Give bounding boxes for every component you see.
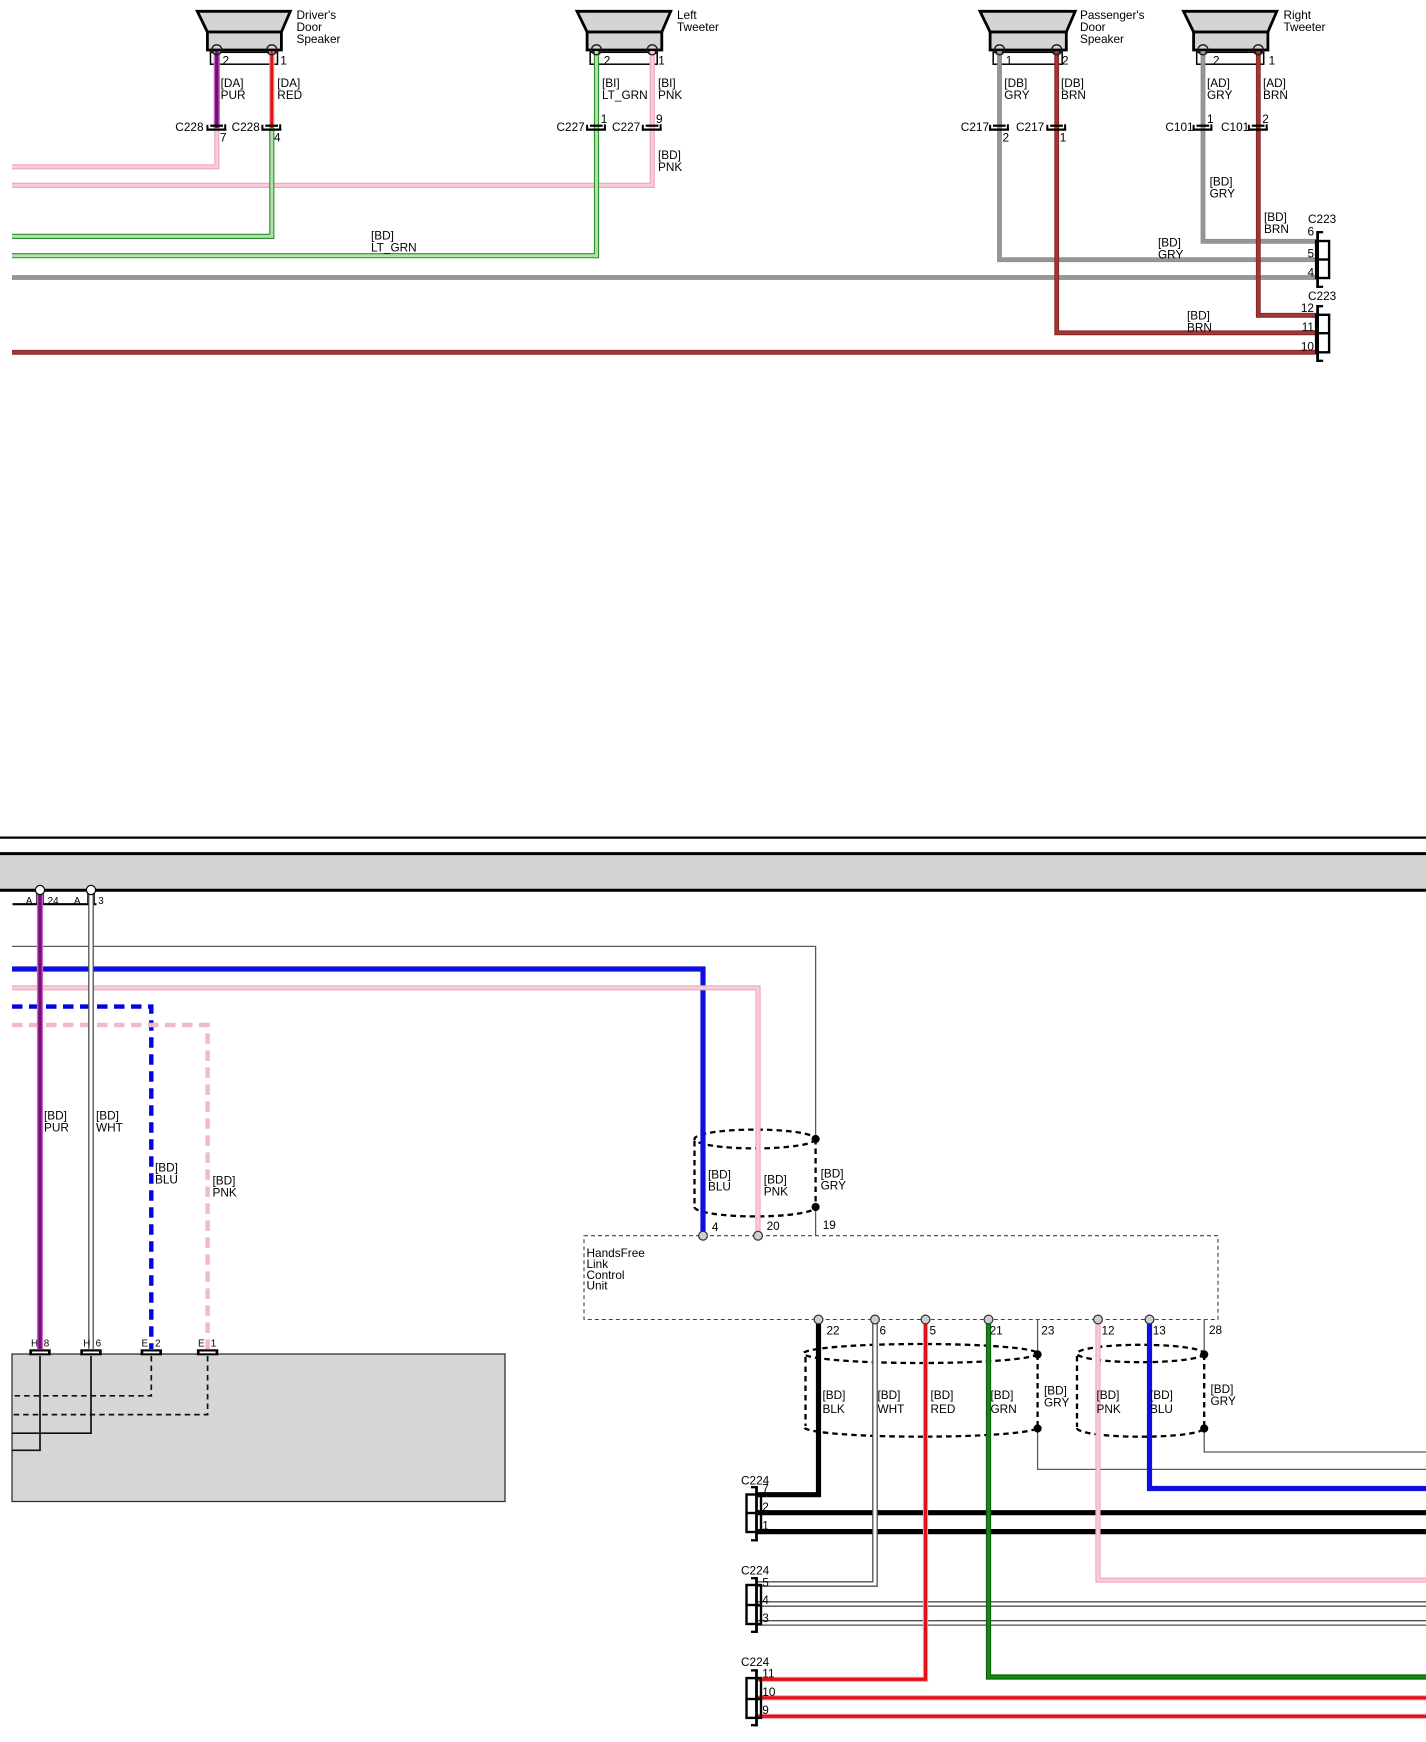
svg-text:2: 2 [223, 53, 230, 67]
svg-text:1: 1 [601, 112, 608, 126]
svg-text:C217: C217 [1016, 120, 1044, 134]
label [BD] RED [931, 1388, 956, 1416]
svg-text:20: 20 [767, 1219, 781, 1233]
wire [DA] RED speaker pin 1 to C228 pin 4 [269, 51, 274, 128]
terminal circle A 24 [35, 885, 44, 894]
shield drain pin 28 dashed segment [1203, 1355, 1205, 1429]
shield cylinder around BLK/WHT/RED/GRN [804, 1344, 1038, 1437]
svg-text:5: 5 [930, 1324, 937, 1338]
svg-text:WHT: WHT [96, 1121, 123, 1135]
svg-text:H: H [83, 1339, 90, 1350]
connector C228 pin 4 [232, 120, 282, 145]
label Passenger's Door Speaker [1080, 8, 1145, 46]
svg-text:BLU: BLU [155, 1173, 178, 1187]
svg-text:RED: RED [931, 1402, 956, 1416]
svg-text:PNK: PNK [764, 1185, 788, 1199]
wire [BD] PNK from C228 pin 7 to left edge [12, 128, 217, 167]
horizontal rule above harness bar [0, 836, 1426, 838]
wire [BD] GRY drain pin 28 to right edge [1204, 1320, 1426, 1453]
svg-text:7: 7 [762, 1482, 769, 1496]
svg-text:PUR: PUR [44, 1121, 69, 1135]
wire [BD] WHT pin 6 to C224 pin 5 [757, 1322, 875, 1584]
svg-text:BLK: BLK [823, 1402, 845, 1416]
wire [BD] RED C224 pin 10 to right edge [757, 1695, 1426, 1700]
svg-text:Speaker: Speaker [297, 32, 341, 46]
svg-text:2: 2 [762, 1500, 769, 1514]
connector C101 pin 1 [1165, 112, 1213, 134]
wire [BD] BLK C224 pin 2 to right edge [757, 1510, 1426, 1515]
label [BI] LT_GRN [602, 76, 648, 102]
connector C227 pin 9 [612, 112, 663, 134]
wire [DA] PUR speaker pin 2 to C228 pin 7 [214, 51, 220, 128]
wire [BD] LT_GRN from C228 pin 4 to left edge [12, 128, 272, 236]
connector C224 pins 11,10,9 [741, 1655, 776, 1727]
connector face Left Tweeter pins 2,1 [590, 52, 665, 67]
svg-text:GRY: GRY [1207, 88, 1232, 102]
svg-text:GRY: GRY [1211, 1394, 1236, 1408]
svg-text:Tweeter: Tweeter [677, 20, 719, 34]
wire [BD] BLU dashed to E 2 [12, 1007, 151, 1349]
connector C224 pins 7,2,1 [741, 1473, 770, 1541]
terminal box pin A 3 [88, 892, 94, 903]
shield drain pin 23 dashed segment [1036, 1355, 1038, 1429]
svg-text:GRY: GRY [1210, 187, 1235, 201]
svg-text:4: 4 [1307, 266, 1314, 280]
label [BD] BRN right tweeter branch [1264, 210, 1289, 236]
svg-text:C227: C227 [612, 120, 640, 134]
svg-text:4: 4 [762, 1593, 769, 1607]
HandsFree pin 28 [1209, 1323, 1223, 1337]
wire [AD]/[BD] GRY right tweeter pin 2 via C101 to C223 pin 6 [1203, 51, 1316, 241]
speaker symbol: Left Tweeter [577, 11, 671, 50]
label Left Tweeter [677, 8, 719, 34]
shield cylinder around PNK/BLU [1077, 1345, 1204, 1437]
internal wire from E 2 (dashed) [13, 1356, 152, 1396]
label [BD] PNK below C227 pin 9 [658, 148, 682, 174]
svg-text:7: 7 [220, 131, 227, 145]
svg-text:Speaker: Speaker [1080, 32, 1124, 46]
svg-text:WHT: WHT [878, 1402, 905, 1416]
wire [BD] GRN pin 21 to right edge [989, 1322, 1426, 1677]
svg-text:6: 6 [96, 1339, 102, 1350]
svg-text:13: 13 [1153, 1324, 1167, 1338]
junction dot shield1 top [1034, 1350, 1042, 1358]
pin bar H 6 [80, 1339, 101, 1356]
svg-text:[BD]: [BD] [1150, 1388, 1173, 1402]
wire [BD] GRY long from left edge to C223 pin 4 [12, 275, 1316, 280]
HandsFree Link Control Unit box [584, 1236, 1218, 1320]
connector face Right Tweeter pins 2,1 [1197, 52, 1275, 67]
HandsFree pin 22 [814, 1315, 840, 1337]
svg-text:[BD]: [BD] [878, 1388, 901, 1402]
label [DB] BRN [1061, 76, 1086, 102]
svg-text:E: E [142, 1339, 149, 1350]
svg-text:C101: C101 [1165, 120, 1193, 134]
label [BD] GRY drain 28 [1211, 1382, 1236, 1408]
svg-text:1: 1 [280, 53, 287, 67]
svg-text:GRY: GRY [1044, 1396, 1069, 1410]
wire [DB]/[BD] BRN passenger speaker pin 2 via C217 to C223 pin 11 [1057, 51, 1316, 333]
label [BD] BRN passenger branch [1187, 309, 1212, 335]
svg-text:3: 3 [98, 896, 104, 907]
label [BD] LT_GRN long wire [371, 229, 417, 255]
connector C223 pins 6,5,4 [1307, 212, 1336, 288]
svg-text:28: 28 [1209, 1323, 1223, 1337]
wire [BD] GRY thin to HandsFree pin 19 [12, 946, 816, 1236]
HandsFree pin 4 [699, 1220, 719, 1240]
terminal circles Right Tweeter [1198, 45, 1263, 55]
wire [BD] PNK to HandsFree pin 20 [12, 988, 758, 1232]
label Driver's Door Speaker [297, 8, 341, 46]
label [BD] PUR [44, 1109, 69, 1135]
label Right Tweeter [1284, 8, 1326, 34]
svg-text:PNK: PNK [658, 160, 682, 174]
svg-text:C227: C227 [557, 120, 585, 134]
connector C227 pin 1 [557, 112, 608, 134]
HandsFree pin 21 [984, 1315, 1003, 1338]
connector C223 pins 12,11,10 [1301, 289, 1337, 362]
terminal circles Passenger's Door Speaker [995, 45, 1062, 55]
wire [BD] BLK pin 22 to C224 pin 7 [757, 1322, 819, 1495]
junction dot shield to pin 19 bottom [812, 1203, 820, 1211]
wire [BD] WHT C224 pin 3 to right edge [757, 1620, 1426, 1626]
svg-text:A: A [26, 896, 33, 907]
wire [BD] PNK dashed to E 1 [12, 1025, 208, 1349]
svg-text:PNK: PNK [213, 1186, 237, 1200]
svg-text:BLU: BLU [708, 1180, 731, 1194]
wire [BD] RED pin 5 to C224 pin 11 [757, 1322, 926, 1679]
svg-text:BRN: BRN [1061, 88, 1086, 102]
label [DA] RED [277, 76, 302, 102]
svg-text:5: 5 [1307, 247, 1314, 261]
svg-text:BLU: BLU [1150, 1402, 1173, 1416]
label [DA] PUR [221, 76, 246, 102]
wire [BD] BLU pin 13 to right edge [1150, 1322, 1426, 1489]
svg-text:1: 1 [1207, 112, 1214, 126]
connector C228 pin 7 [175, 120, 226, 145]
wire [AD]/[BD] BRN right tweeter pin 1 via C101 to C223 pin 12 [1258, 51, 1316, 315]
svg-text:GRY: GRY [1004, 88, 1029, 102]
svg-text:5: 5 [762, 1576, 769, 1590]
svg-text:[BD]: [BD] [1097, 1388, 1120, 1402]
svg-text:C101: C101 [1221, 120, 1249, 134]
label [BD] GRY drain [821, 1167, 846, 1193]
terminal circles Driver's Door Speaker [212, 45, 277, 55]
shield cylinder around BLU/PNK (HandsFree input pair) [695, 1130, 816, 1217]
wire [BD] PUR from A 24 to H 8 [37, 891, 43, 1349]
pin label A 24 [26, 896, 59, 907]
HandsFree pin 23 [1041, 1324, 1055, 1338]
label [BD] BLK [823, 1388, 846, 1416]
HandsFree pin 5 [921, 1315, 936, 1338]
label [BD] PNK [1097, 1388, 1121, 1416]
svg-text:PNK: PNK [658, 88, 682, 102]
HandsFree pin 13 [1145, 1315, 1166, 1338]
svg-text:BRN: BRN [1264, 222, 1289, 236]
HandsFree pin 12 [1094, 1315, 1115, 1338]
HandsFree pin 20 [754, 1219, 781, 1240]
label [BD] GRN [991, 1388, 1017, 1416]
svg-text:PNK: PNK [1097, 1402, 1121, 1416]
terminal box pin A 24 [37, 892, 43, 903]
wire [BD] WHT from A 3 to H 6 [88, 891, 94, 1349]
svg-text:11: 11 [1302, 320, 1314, 334]
svg-text:1: 1 [1269, 54, 1276, 68]
terminal circles Left Tweeter [592, 45, 658, 55]
svg-text:12: 12 [1301, 301, 1314, 315]
svg-text:8: 8 [44, 1339, 50, 1350]
junction dot shield2 top [1200, 1350, 1208, 1358]
svg-text:1: 1 [1006, 54, 1013, 68]
speaker symbol: Passenger's Door Speaker [980, 11, 1075, 50]
svg-text:2: 2 [1262, 112, 1269, 126]
svg-text:E: E [198, 1339, 205, 1350]
pin label A 3 [74, 896, 104, 907]
svg-text:Tweeter: Tweeter [1284, 20, 1326, 34]
svg-text:10: 10 [762, 1685, 776, 1699]
svg-text:6: 6 [880, 1324, 887, 1338]
label [AD] GRY [1207, 76, 1232, 102]
label [BD] WHT [878, 1388, 905, 1416]
svg-text:1: 1 [762, 1519, 769, 1533]
label [BD] BLU shielded [708, 1168, 731, 1194]
svg-text:A: A [74, 896, 81, 907]
label [AD] BRN [1263, 76, 1288, 102]
pin bar E 1 [197, 1339, 218, 1356]
svg-text:9: 9 [656, 112, 663, 126]
label [DB] GRY [1004, 76, 1029, 102]
svg-text:10: 10 [1301, 340, 1315, 354]
label [BD] PNK dashed [213, 1174, 237, 1200]
svg-text:2: 2 [1213, 54, 1220, 68]
label [BD] BLU [1150, 1388, 1173, 1416]
label [BI] PNK [658, 76, 682, 102]
speaker symbol: Right Tweeter [1184, 11, 1277, 50]
svg-text:GRN: GRN [991, 1402, 1017, 1416]
svg-text:1: 1 [211, 1339, 217, 1350]
wire [BD] GRY drain pin 23 to right edge [1038, 1320, 1426, 1470]
HandsFree pin 6 [871, 1315, 887, 1338]
wire [BI]/[BD] LT_GRN left tweeter pin 2 via C227 pin 1 to left edge [12, 51, 597, 256]
wire [DB]/[BD] GRY passenger speaker pin 1 via C217 to C223 pin 5 [1000, 51, 1317, 260]
internal wire from E 1 (dashed) [13, 1356, 208, 1415]
wire [BD] RED C224 pin 9 to right edge [757, 1714, 1426, 1719]
svg-text:BRN: BRN [1187, 321, 1212, 335]
wire [BD] WHT C224 pin 4 to right edge [757, 1601, 1426, 1607]
label [BD] GRY right tweeter branch [1210, 175, 1235, 201]
connector face Driver's Door Speaker pins 2,1 [211, 52, 287, 67]
svg-text:LT_GRN: LT_GRN [602, 88, 648, 102]
internal wire from H 8 [12, 1356, 40, 1450]
svg-text:C228: C228 [232, 120, 261, 134]
svg-text:H: H [31, 1339, 38, 1350]
svg-text:[BD]: [BD] [991, 1388, 1014, 1402]
pin row underline A 24 / A 3 [13, 903, 97, 905]
svg-text:LT_GRN: LT_GRN [371, 241, 417, 255]
svg-text:2: 2 [1003, 131, 1010, 145]
svg-text:Unit: Unit [587, 1279, 609, 1293]
HandsFree pin 19 [823, 1218, 836, 1232]
svg-text:23: 23 [1041, 1324, 1055, 1338]
label [BD] PNK shielded [764, 1173, 788, 1199]
internal wire from H 6 [12, 1356, 91, 1433]
svg-text:24: 24 [48, 896, 59, 907]
connector face Passenger's Door Speaker pins 1,2 [993, 52, 1068, 67]
svg-text:22: 22 [827, 1323, 840, 1337]
connector C101 pin 2 [1221, 112, 1269, 134]
wire [BD] PNK pin 12 to right edge [1098, 1322, 1426, 1580]
pin bar E 2 [141, 1339, 162, 1356]
pin bar H 8 [29, 1339, 50, 1356]
svg-text:9: 9 [762, 1703, 769, 1717]
svg-text:4: 4 [274, 131, 281, 145]
svg-text:PUR: PUR [221, 88, 246, 102]
junction dot shield2 bottom [1200, 1424, 1208, 1432]
svg-text:1: 1 [1060, 131, 1067, 145]
svg-text:GRY: GRY [821, 1179, 846, 1193]
svg-text:21: 21 [990, 1324, 1003, 1338]
svg-text:2: 2 [1062, 54, 1069, 68]
svg-text:12: 12 [1102, 1324, 1115, 1338]
label [BD] GRY drain 23 [1044, 1384, 1069, 1410]
svg-text:19: 19 [823, 1218, 836, 1232]
grounded unit box (gray) [12, 1354, 505, 1502]
wire [BI]/[BD] PNK left tweeter pin 1 via C227 pin 9 to left edge [12, 51, 652, 185]
svg-text:6: 6 [1307, 225, 1314, 239]
terminal circle A 3 [86, 885, 95, 894]
connector C217 pin 2 [961, 120, 1009, 145]
svg-text:4: 4 [712, 1220, 719, 1234]
label [BD] GRY passenger branch [1158, 236, 1183, 262]
svg-text:[BD]: [BD] [931, 1388, 954, 1402]
wire [BD] BLK C224 pin 1 to right edge [757, 1529, 1426, 1534]
svg-text:C228: C228 [175, 120, 204, 134]
svg-text:3: 3 [762, 1611, 769, 1625]
svg-text:2: 2 [604, 54, 611, 68]
svg-text:[BD]: [BD] [823, 1388, 846, 1402]
svg-text:C217: C217 [961, 120, 989, 134]
speaker symbol: Driver's Door Speaker [197, 11, 290, 50]
wire [BD] BRN long from left edge to C223 pin 10 [12, 350, 1316, 355]
svg-text:2: 2 [155, 1339, 161, 1350]
label [BD] BLU dashed [155, 1161, 178, 1187]
svg-text:GRY: GRY [1158, 248, 1183, 262]
svg-text:1: 1 [658, 54, 665, 68]
label [BD] WHT [96, 1109, 123, 1135]
svg-text:BRN: BRN [1263, 88, 1288, 102]
svg-text:11: 11 [762, 1667, 774, 1681]
svg-text:RED: RED [277, 88, 302, 102]
connector C224 pins 5,4,3 [741, 1564, 770, 1633]
shield drain dashed segment pin 19 [814, 1139, 816, 1207]
junction dot shield1 bottom [1034, 1424, 1042, 1432]
harness bar (unit edge) [0, 854, 1426, 891]
junction dot shield to pin 19 top [812, 1135, 820, 1143]
wire [BD] BLU to HandsFree pin 4 [12, 969, 703, 1232]
connector C217 pin 1 [1016, 120, 1066, 145]
